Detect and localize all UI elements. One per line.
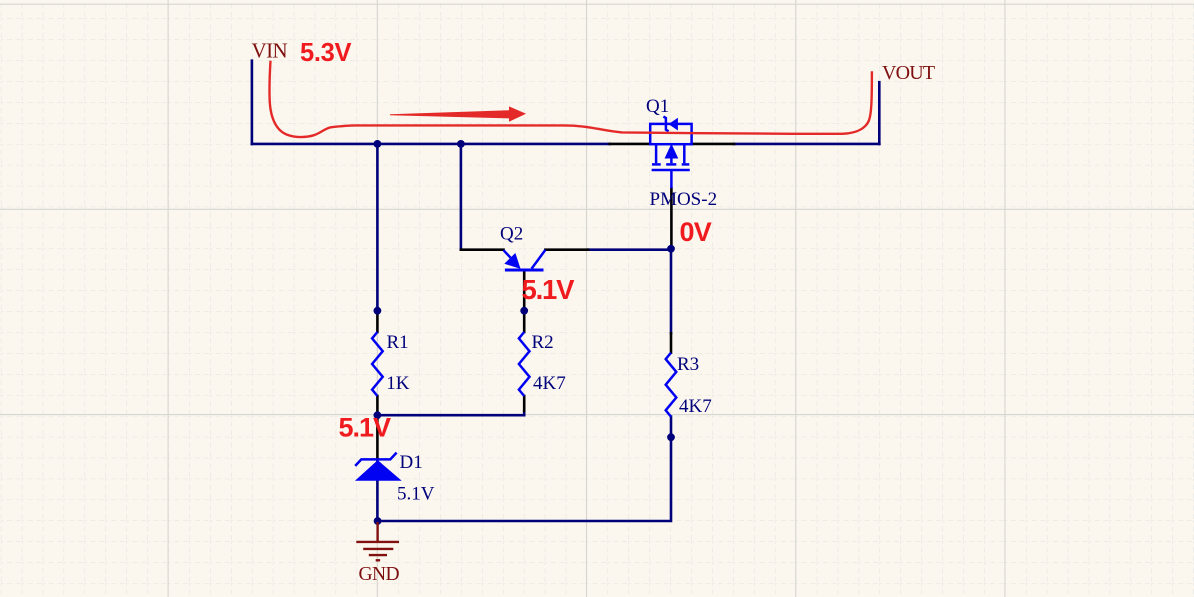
pin D1 cathode (376, 415, 379, 461)
pin Q1 source (610, 143, 649, 146)
Q1 body diode triangle (669, 118, 678, 131)
Q2 emitter line (504, 250, 517, 263)
junction rail/R1 (374, 140, 382, 148)
Q1 gate plate (652, 169, 690, 172)
red current arrow (390, 106, 526, 121)
pin Q2 base (523, 271, 526, 311)
svg-text:4K7: 4K7 (533, 373, 566, 394)
pin Q2 emitter (461, 248, 504, 251)
svg-text:VIN: VIN (252, 39, 288, 63)
svg-text:GND: GND (359, 564, 400, 585)
ground bar 1 (356, 541, 399, 543)
wire VIN vertical (251, 61, 254, 144)
ground bar 3 (369, 554, 387, 556)
svg-text:D1: D1 (400, 452, 423, 473)
svg-text:R2: R2 (532, 332, 554, 353)
resistor R3 body (666, 353, 677, 417)
wire D1 anode to ground node (376, 480, 379, 521)
svg-text:4K7: 4K7 (679, 396, 712, 417)
junction R1 bottom / D1 (374, 411, 382, 419)
svg-text:1K: 1K (386, 373, 410, 394)
pin R3 top (670, 333, 673, 352)
pin Q1 drain (693, 143, 734, 146)
ground bar 4 (376, 559, 380, 561)
pin R2 top (523, 311, 526, 332)
wire top rail left (252, 143, 610, 146)
pin Q1 gate (670, 188, 673, 249)
Q1 drain contact (683, 145, 686, 163)
node 0V junction (667, 245, 675, 253)
svg-text:Q1: Q1 (646, 96, 669, 117)
wire top rail right (734, 143, 879, 146)
Q1 gate lead (670, 170, 673, 188)
junction R3 bottom (667, 433, 675, 441)
wire R3 bottom (670, 417, 673, 438)
svg-text:5.1V: 5.1V (522, 274, 576, 305)
D1 cathode bar (355, 453, 396, 466)
pin R1 top (376, 311, 379, 332)
Q1 bulk contact (670, 156, 673, 163)
wire node 0V to R3 (670, 249, 673, 333)
svg-text:0V: 0V (680, 217, 712, 247)
svg-text:R3: R3 (677, 354, 699, 375)
Q2 emitter arrow (506, 255, 519, 267)
svg-text:VOUT: VOUT (882, 62, 935, 84)
ground stem (376, 522, 378, 541)
pin Q2 collector (545, 248, 588, 251)
Q1 source contact (655, 145, 658, 163)
wire VOUT vertical (878, 82, 881, 144)
wire Q2 collector to node 0V (588, 248, 671, 251)
svg-text:5.1V: 5.1V (339, 413, 392, 443)
pin R1 bottom (376, 396, 379, 415)
D1 triangle (357, 461, 401, 480)
svg-text:5.1V: 5.1V (397, 484, 435, 505)
Q1 source foot (652, 163, 661, 166)
Q2 collector line (532, 250, 546, 269)
resistor R2 body (519, 332, 530, 396)
svg-text:Q2: Q2 (500, 224, 523, 245)
pin R2 bottom (523, 396, 526, 411)
wire R1 bottom to R2 bottom (377, 411, 524, 415)
Q1 body zener bar (663, 117, 668, 132)
resistor R1 body (372, 332, 383, 396)
svg-text:PMOS-2: PMOS-2 (650, 189, 718, 210)
Q1 body rectangle (650, 124, 691, 144)
Q1 drain foot (682, 163, 690, 166)
junction rail/Q2 (457, 140, 465, 148)
junction ground node (374, 517, 382, 525)
junction Q2 base / R2 (520, 307, 528, 315)
svg-text:R1: R1 (387, 332, 409, 353)
Q2 base bar (505, 269, 544, 272)
wire R3 to bottom rail (378, 437, 671, 521)
ground bar 2 (363, 548, 393, 550)
Q1 bulk arrow (667, 147, 677, 158)
red current path curve (269, 61, 871, 137)
wire rail to Q2 emitter corner (460, 144, 463, 250)
svg-text:5.3V: 5.3V (300, 39, 352, 67)
Q1 bulk foot (666, 163, 676, 166)
wire rail to R1 (376, 144, 379, 311)
junction R1 top (374, 307, 382, 315)
